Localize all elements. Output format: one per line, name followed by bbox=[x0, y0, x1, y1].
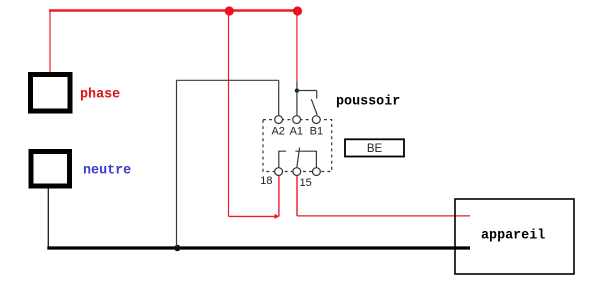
wire: black drop to terminal A1 bbox=[296, 82, 298, 116]
terminal box: phase bbox=[31, 75, 71, 112]
component box BE bbox=[345, 139, 404, 156]
svg-text:18: 18 bbox=[260, 175, 272, 187]
svg-text:15: 15 bbox=[299, 177, 311, 189]
wire: poussoir fixed contact horizontal bbox=[297, 90, 317, 92]
terminal A2 bbox=[275, 116, 283, 124]
wire: red vertical from J2 down to A1 branch bbox=[296, 11, 298, 82]
terminal 15 bbox=[293, 168, 301, 176]
svg-text:poussoir: poussoir bbox=[336, 94, 400, 109]
wire: red vertical from J1 down to lower red run bbox=[228, 11, 230, 216]
wire: red horizontal lower-left run bbox=[229, 215, 278, 217]
svg-text:neutre: neutre bbox=[83, 164, 131, 179]
wire: red drop from terminal 18 bbox=[278, 176, 280, 217]
svg-text:B1: B1 bbox=[310, 125, 323, 137]
terminal 18 bbox=[275, 168, 283, 176]
wire: black horizontal to A2 bbox=[177, 79, 279, 81]
wire: red drop from rail to phase box bbox=[49, 10, 51, 72]
svg-text:appareil: appareil bbox=[481, 229, 545, 244]
arrowhead at end of lower-left red run bbox=[275, 214, 280, 219]
node: junction above A1 bbox=[295, 88, 299, 92]
wire: black vertical riser left bbox=[176, 80, 178, 247]
terminal A1 bbox=[293, 116, 301, 124]
relay internal contact: L from terminal 18 bbox=[279, 151, 286, 167]
wire: black drop to terminal A2 bbox=[278, 80, 280, 116]
wire: phase red top rail bbox=[49, 9, 299, 11]
wire: red horizontal run to appareil bbox=[297, 215, 470, 217]
svg-text:A1: A1 bbox=[290, 125, 303, 137]
svg-text:phase: phase bbox=[80, 88, 120, 103]
svg-text:BE: BE bbox=[367, 143, 383, 155]
junction dot J1 on rail bbox=[225, 6, 234, 15]
relay internal contact: moving arm from 15 bbox=[297, 148, 300, 168]
junction dot J2 on rail bbox=[293, 6, 302, 15]
relay BE outline (dashed) bbox=[263, 120, 332, 172]
switch: poussoir moving arm bbox=[311, 99, 317, 115]
terminal 16 (unlabeled) bbox=[313, 168, 321, 176]
wire: black from neutre box to bottom bus bbox=[47, 189, 49, 248]
svg-text:A2: A2 bbox=[271, 125, 284, 137]
wire: neutral bottom bus bbox=[47, 246, 470, 249]
terminal B1 bbox=[312, 116, 320, 124]
component box: appareil bbox=[455, 199, 574, 274]
relay internal contact: NC run to right terminal bbox=[295, 151, 316, 167]
wire: poussoir fixed contact vertical stub bbox=[316, 91, 318, 99]
wire: red drop from terminal 15 bbox=[296, 176, 298, 216]
node: junction on bottom bus bbox=[174, 245, 180, 251]
terminal box: neutre bbox=[31, 152, 70, 187]
